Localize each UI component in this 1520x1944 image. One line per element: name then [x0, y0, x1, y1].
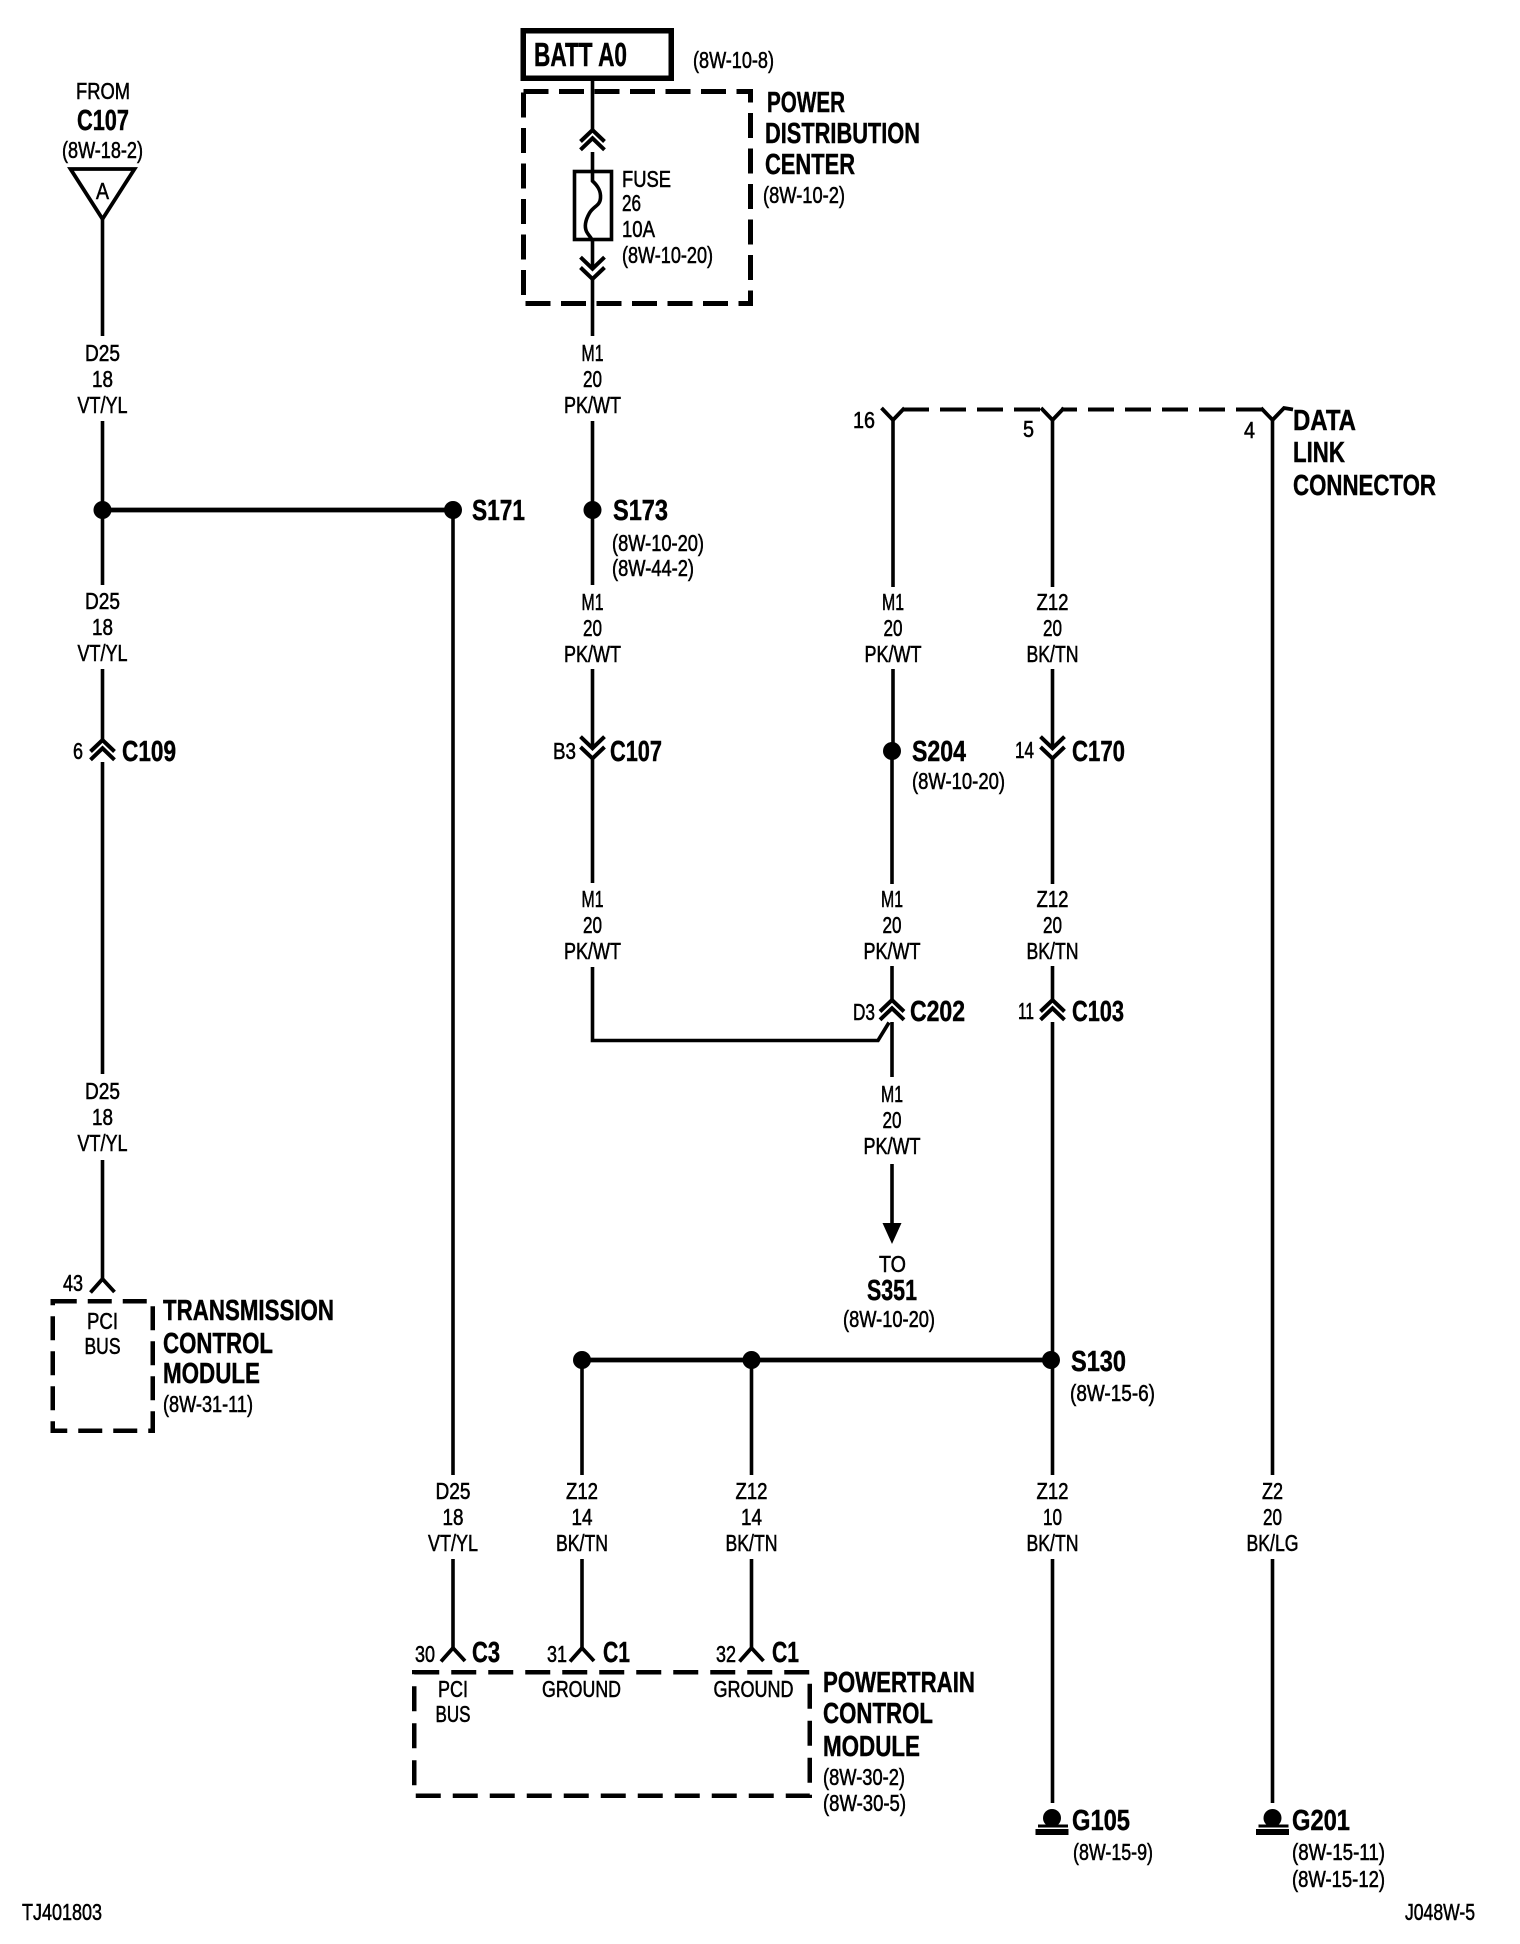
wire to G201: [1271, 1559, 1275, 1803]
connector chevrons inside PDC (up): [581, 130, 605, 150]
TCM name label: [163, 1295, 334, 1417]
svg-text:20: 20: [883, 1107, 902, 1133]
svg-text:POWERTRAIN: POWERTRAIN: [823, 1667, 975, 1699]
wire chevrons to fuse: [591, 152, 595, 171]
wire label to S173: [591, 421, 595, 503]
svg-text:D25: D25: [85, 588, 120, 614]
PCM pin 32 C1: [716, 1637, 799, 1669]
svg-text:(8W-44-2): (8W-44-2): [612, 555, 694, 581]
svg-text:20: 20: [1043, 912, 1062, 938]
svg-text:S130: S130: [1071, 1346, 1126, 1378]
svg-text:30: 30: [415, 1641, 435, 1667]
wire below left junction: [101, 518, 105, 585]
svg-text:5: 5: [1023, 416, 1034, 442]
svg-text:20: 20: [583, 912, 602, 938]
wire to connector C170: [1051, 669, 1055, 748]
svg-text:C1: C1: [603, 1637, 630, 1669]
svg-text:6: 6: [73, 738, 83, 764]
wire fuse to chevrons: [591, 241, 595, 269]
DLC pin 5: [1023, 408, 1064, 442]
svg-text:S351: S351: [867, 1275, 917, 1307]
svg-text:C103: C103: [1072, 996, 1124, 1028]
wire S204 down: [890, 759, 894, 884]
connector C170 pin 14: [1015, 736, 1125, 768]
svg-text:11: 11: [1018, 998, 1034, 1024]
svg-text:M1: M1: [881, 886, 903, 912]
svg-text:VT/YL: VT/YL: [78, 1130, 128, 1156]
fuse 26 10A: [575, 166, 714, 268]
wire label D25 18 VT/YL: [428, 1478, 478, 1556]
wire label M1 20 PK/WT: [864, 1081, 921, 1159]
wire link to S171: [103, 508, 454, 513]
svg-text:(8W-30-2): (8W-30-2): [823, 1764, 905, 1790]
svg-text:(8W-15-11): (8W-15-11): [1292, 1839, 1385, 1865]
svg-text:(8W-18-2): (8W-18-2): [62, 137, 143, 163]
svg-text:Z12: Z12: [736, 1478, 768, 1504]
wire to G105: [1051, 1559, 1055, 1803]
wire label Z12 14 BK/TN: [556, 1478, 608, 1556]
svg-text:LINK: LINK: [1293, 437, 1345, 469]
wire label Z2 20 BK/LG: [1247, 1478, 1299, 1556]
connector C202 pin D3: [853, 996, 965, 1028]
svg-text:20: 20: [883, 912, 902, 938]
svg-text:(8W-10-2): (8W-10-2): [763, 182, 845, 208]
wire label D25 18 VT/YL: [78, 340, 128, 418]
svg-text:PK/WT: PK/WT: [564, 641, 621, 667]
wire label Z12 14 BK/TN: [726, 1478, 778, 1556]
wire to PCM pin 30: [451, 1559, 455, 1649]
svg-text:G201: G201: [1292, 1805, 1350, 1837]
wire label D25 18 VT/YL: [78, 588, 128, 666]
wire PDC exit: [591, 279, 595, 336]
svg-text:26: 26: [622, 190, 641, 216]
wire to connector C107: [591, 669, 595, 748]
svg-text:CENTER: CENTER: [765, 149, 855, 181]
svg-text:CONNECTOR: CONNECTOR: [1293, 470, 1436, 502]
wire label to TCM pin 43: [101, 1160, 105, 1279]
power distribution center box: [524, 92, 751, 304]
data link connector dashed line: [903, 408, 1262, 412]
wire label D25 18 VT/YL: [78, 1078, 128, 1156]
wire label M1 20 PK/WT: [865, 589, 922, 667]
svg-text:J048W-5: J048W-5: [1405, 1899, 1475, 1925]
svg-text:TO: TO: [879, 1251, 906, 1277]
svg-text:D25: D25: [85, 340, 120, 366]
svg-text:A: A: [96, 178, 110, 204]
svg-text:(8W-30-5): (8W-30-5): [823, 1790, 906, 1816]
svg-text:BK/TN: BK/TN: [1027, 641, 1079, 667]
PCM pin 30 C3: [415, 1637, 500, 1669]
wire to PCM pin 32: [750, 1559, 754, 1649]
splice S173: [584, 495, 705, 581]
svg-text:D25: D25: [85, 1078, 120, 1104]
wire C103 to S130: [1051, 1022, 1055, 1352]
svg-text:M1: M1: [881, 1081, 903, 1107]
wire to connector C103: [1051, 966, 1055, 1000]
splice S171: [444, 501, 462, 519]
svg-text:G105: G105: [1072, 1805, 1130, 1837]
svg-text:32: 32: [716, 1641, 736, 1667]
svg-text:18: 18: [92, 1104, 113, 1130]
svg-text:4: 4: [1244, 417, 1255, 443]
svg-text:C170: C170: [1072, 736, 1125, 768]
svg-text:Z2: Z2: [1262, 1478, 1283, 1504]
splice S130: [1042, 1346, 1155, 1406]
wire C109 to label: [101, 762, 105, 1074]
svg-text:20: 20: [583, 366, 602, 392]
svg-text:GROUND: GROUND: [542, 1676, 621, 1702]
powertrain control module box: [414, 1672, 810, 1796]
svg-text:Z12: Z12: [1037, 589, 1069, 615]
svg-text:DATA: DATA: [1293, 405, 1356, 437]
svg-text:MODULE: MODULE: [823, 1731, 920, 1763]
transmission control module box: [53, 1301, 153, 1431]
ground G105: [1036, 1805, 1154, 1865]
svg-text:D25: D25: [436, 1478, 471, 1504]
svg-text:10A: 10A: [622, 216, 656, 242]
connector C103 pin 11: [1018, 996, 1124, 1028]
arrow to S351: [883, 1223, 902, 1244]
svg-text:(8W-10-8): (8W-10-8): [693, 47, 774, 73]
wire C107 down: [591, 759, 595, 884]
svg-text:Z12: Z12: [1037, 1478, 1069, 1504]
wire pin32 riser: [750, 1366, 754, 1475]
svg-text:POWER: POWER: [767, 87, 845, 119]
wire pin5 down: [1051, 420, 1055, 587]
connector chevrons inside PDC (down): [581, 257, 605, 279]
svg-text:BUS: BUS: [436, 1701, 471, 1727]
svg-text:16: 16: [853, 407, 875, 433]
wire elbow to C202: [593, 967, 890, 1041]
svg-text:PK/WT: PK/WT: [564, 938, 621, 964]
wire C202 down: [890, 1022, 894, 1077]
svg-text:VT/YL: VT/YL: [78, 640, 128, 666]
node TO S351 label: [843, 1251, 935, 1332]
svg-text:20: 20: [884, 615, 903, 641]
wire label M1 20 PK/WT: [864, 886, 921, 964]
svg-text:(8W-15-9): (8W-15-9): [1073, 1839, 1153, 1865]
svg-text:M1: M1: [882, 589, 904, 615]
svg-text:BK/LG: BK/LG: [1247, 1530, 1299, 1556]
svg-text:FUSE: FUSE: [622, 166, 671, 192]
svg-text:BK/TN: BK/TN: [556, 1530, 608, 1556]
wire label M1 20 PK/WT: [564, 886, 621, 964]
wire S130 down: [1051, 1368, 1055, 1475]
wire label Z12 20 BK/TN: [1027, 589, 1079, 667]
svg-text:(8W-10-20): (8W-10-20): [912, 768, 1005, 794]
svg-text:10: 10: [1043, 1504, 1062, 1530]
connector C109 pin 6: [73, 736, 176, 768]
svg-text:Z12: Z12: [566, 1478, 598, 1504]
svg-text:MODULE: MODULE: [163, 1358, 260, 1390]
svg-text:C107: C107: [77, 105, 129, 137]
DLC pin 16: [853, 407, 905, 433]
svg-text:DISTRIBUTION: DISTRIBUTION: [765, 118, 920, 150]
svg-text:BUS: BUS: [85, 1333, 121, 1359]
off-page connector triangle A (from C107): [71, 169, 135, 219]
svg-text:(8W-15-6): (8W-15-6): [1070, 1380, 1155, 1406]
svg-text:S173: S173: [613, 495, 668, 527]
svg-text:PK/WT: PK/WT: [865, 641, 922, 667]
wire pin16 down: [891, 420, 895, 587]
junction dot at pin32 riser: [743, 1351, 761, 1369]
wire label M1 20 PK/WT: [564, 340, 621, 418]
svg-text:(8W-31-11): (8W-31-11): [163, 1391, 253, 1417]
wire label Z12 10 BK/TN: [1027, 1478, 1079, 1556]
PCM name label: [823, 1667, 975, 1816]
junction dot left of S171: [94, 501, 112, 519]
wire D25 label to junction: [101, 421, 105, 503]
svg-text:S204: S204: [912, 736, 966, 768]
wire to PCM pin 31: [580, 1559, 584, 1649]
svg-text:C109: C109: [122, 736, 176, 768]
svg-text:PCI: PCI: [87, 1308, 118, 1334]
svg-text:TRANSMISSION: TRANSMISSION: [163, 1295, 334, 1327]
svg-text:31: 31: [547, 1641, 567, 1667]
node FROM C107 label: [62, 78, 143, 163]
wire to connector C202: [890, 966, 894, 1000]
svg-text:CONTROL: CONTROL: [823, 1698, 933, 1730]
connector C107 pin B3: [553, 736, 662, 768]
svg-text:BK/TN: BK/TN: [726, 1530, 778, 1556]
svg-text:18: 18: [92, 366, 113, 392]
junction dot at pin31 riser: [573, 1351, 591, 1369]
BATT A0 box: [523, 31, 671, 79]
svg-text:PK/WT: PK/WT: [864, 1133, 921, 1159]
svg-text:PK/WT: PK/WT: [564, 392, 621, 418]
svg-text:VT/YL: VT/YL: [78, 392, 128, 418]
svg-text:C107: C107: [610, 736, 662, 768]
svg-text:(8W-15-12): (8W-15-12): [1292, 1866, 1385, 1892]
svg-text:M1: M1: [582, 589, 604, 615]
PDC name label: [763, 87, 920, 208]
wire BATT to chevrons: [591, 81, 595, 130]
svg-text:B3: B3: [553, 738, 576, 764]
svg-text:(8W-10-20): (8W-10-20): [622, 242, 713, 268]
wire C170 down: [1051, 759, 1055, 885]
pin 43 of TCM: [63, 1270, 115, 1296]
svg-text:Z12: Z12: [1037, 886, 1069, 912]
wire label Z12 20 BK/TN: [1027, 886, 1079, 964]
svg-text:20: 20: [583, 615, 602, 641]
svg-text:BATT A0: BATT A0: [534, 36, 627, 73]
wire pin4 down: [1271, 420, 1275, 1475]
DLC name label: [1293, 405, 1436, 502]
svg-text:20: 20: [1263, 1504, 1282, 1530]
svg-text:20: 20: [1043, 615, 1062, 641]
svg-text:14: 14: [741, 1504, 762, 1530]
svg-text:M1: M1: [582, 340, 604, 366]
svg-text:M1: M1: [582, 886, 604, 912]
svg-text:14: 14: [572, 1504, 593, 1530]
svg-text:(8W-10-20): (8W-10-20): [843, 1306, 935, 1332]
wire S173 down: [591, 518, 595, 585]
svg-text:C202: C202: [910, 996, 965, 1028]
svg-text:(8W-10-20): (8W-10-20): [612, 530, 704, 556]
svg-text:TJ401803: TJ401803: [22, 1899, 102, 1925]
wire to connector C109: [101, 669, 105, 740]
svg-text:18: 18: [443, 1504, 464, 1530]
svg-text:VT/YL: VT/YL: [428, 1530, 478, 1556]
svg-text:PK/WT: PK/WT: [864, 938, 921, 964]
svg-text:FROM: FROM: [76, 78, 130, 104]
ground bus wire: [582, 1358, 1051, 1363]
svg-text:18: 18: [92, 614, 113, 640]
svg-text:PCI: PCI: [438, 1676, 468, 1702]
svg-text:BK/TN: BK/TN: [1027, 938, 1079, 964]
wire to S204: [891, 669, 895, 744]
wire label M1 20 PK/WT: [564, 589, 621, 667]
svg-text:BK/TN: BK/TN: [1027, 1530, 1079, 1556]
svg-text:GROUND: GROUND: [714, 1676, 794, 1702]
svg-text:C3: C3: [472, 1637, 500, 1669]
wire S171 down: [451, 518, 455, 1475]
svg-text:C1: C1: [772, 1637, 799, 1669]
wire D25 triangle to label: [101, 219, 105, 336]
svg-text:14: 14: [1015, 737, 1034, 763]
PCM pin 31 C1: [547, 1637, 630, 1669]
svg-text:CONTROL: CONTROL: [163, 1328, 273, 1360]
wire pin31 riser: [580, 1366, 584, 1475]
svg-text:S171: S171: [472, 495, 525, 527]
ground G201: [1256, 1805, 1385, 1892]
wire to arrow: [890, 1164, 894, 1225]
svg-text:D3: D3: [853, 999, 875, 1025]
splice S204: [883, 736, 1005, 794]
DLC pin 4: [1244, 408, 1293, 443]
svg-text:43: 43: [63, 1270, 83, 1296]
